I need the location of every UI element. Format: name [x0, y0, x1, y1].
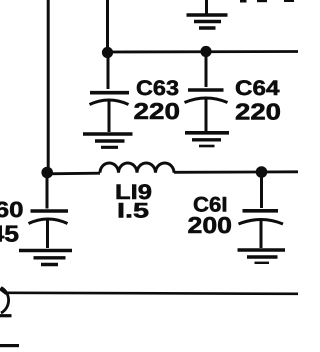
wire: bottom horizontal	[6, 293, 298, 294]
label C60 value (cut off at left edge: "60" / "45")	[0, 197, 24, 247]
wire: middle horizontal, left segment	[47, 172, 100, 175]
capacitor C61	[239, 177, 284, 248]
terminal 2 (circled connector, cut off at left edge)	[0, 288, 12, 316]
capacitor C63	[90, 57, 130, 132]
node: junction left bus / C60 / L19	[41, 167, 53, 179]
wire: upper vertical branch to C63 node	[106, 0, 109, 52]
label L19 1.5	[115, 181, 152, 223]
ground (C64)	[185, 133, 229, 146]
ground (top, off-screen component)	[187, 0, 228, 28]
capacitor C60	[29, 177, 69, 248]
wire: upper horizontal bus	[106, 50, 298, 53]
svg-text:C64: C64	[235, 77, 280, 100]
node: junction of upper bus and C63	[102, 47, 113, 58]
cut-off text fragments at top edge	[240, 0, 294, 3]
node: junction of upper bus and C64	[200, 46, 211, 57]
cut-off mark at bottom-left edge	[0, 344, 19, 347]
label C63 220	[134, 77, 181, 124]
svg-text:220: 220	[235, 98, 281, 124]
svg-text:C60: C60	[0, 197, 24, 222]
wire: left vertical bus	[47, 0, 50, 172]
svg-text:I.5: I.5	[117, 200, 149, 223]
node: junction at C61	[256, 166, 268, 178]
svg-text:200: 200	[188, 212, 233, 238]
label C61 200	[188, 194, 233, 239]
ground (C60)	[19, 251, 72, 265]
svg-text:220: 220	[134, 98, 181, 124]
svg-text:45: 45	[0, 221, 19, 247]
ground (C61)	[238, 250, 286, 263]
inductor L19	[100, 163, 174, 173]
ground (C63)	[83, 134, 133, 147]
label C64 220	[235, 77, 281, 124]
wire: middle horizontal, right segment	[174, 170, 298, 173]
svg-text:C63: C63	[136, 77, 179, 100]
capacitor C64	[185, 56, 228, 132]
